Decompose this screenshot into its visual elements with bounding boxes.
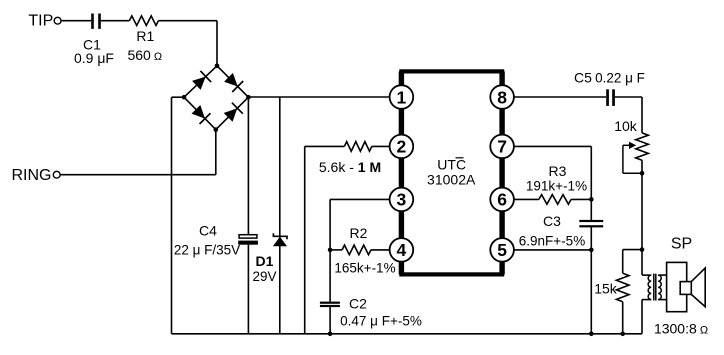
svg-text:D1: D1 xyxy=(256,253,274,269)
svg-text:10k: 10k xyxy=(614,118,638,134)
svg-text:R1: R1 xyxy=(136,28,154,44)
svg-text:7: 7 xyxy=(497,137,507,157)
svg-text:C3: C3 xyxy=(543,213,561,229)
svg-text:4: 4 xyxy=(397,240,407,260)
svg-text:RING: RING xyxy=(12,167,52,184)
svg-text:C5: C5 xyxy=(574,69,592,85)
svg-text:15k: 15k xyxy=(594,281,618,297)
svg-text:29V: 29V xyxy=(252,269,276,284)
svg-text:5.6k - 1 M: 5.6k - 1 M xyxy=(319,159,381,175)
svg-text:R3: R3 xyxy=(549,163,567,179)
svg-text:0.9 μF: 0.9 μF xyxy=(74,50,114,66)
svg-text:R2: R2 xyxy=(350,225,368,241)
svg-text:8: 8 xyxy=(497,87,507,107)
svg-text:2: 2 xyxy=(397,137,407,157)
svg-text:6.9nF+-5%: 6.9nF+-5% xyxy=(519,234,585,249)
svg-text:0.22 μ F: 0.22 μ F xyxy=(595,70,645,85)
svg-text:31002A: 31002A xyxy=(427,171,476,187)
svg-text:6: 6 xyxy=(497,190,507,210)
svg-text:UTC: UTC xyxy=(437,157,466,173)
svg-text:C4: C4 xyxy=(199,222,217,238)
svg-text:1: 1 xyxy=(397,87,407,107)
svg-text:3: 3 xyxy=(397,190,407,210)
svg-text:22 μ F/35V: 22 μ F/35V xyxy=(174,242,240,257)
svg-text:191k+-1%: 191k+-1% xyxy=(526,178,587,193)
svg-text:0.47 μ F+-5%: 0.47 μ F+-5% xyxy=(340,314,422,329)
svg-text:165k+-1%: 165k+-1% xyxy=(334,261,395,276)
svg-text:C2: C2 xyxy=(349,296,367,312)
svg-text:5: 5 xyxy=(497,240,507,260)
svg-text:SP: SP xyxy=(671,236,692,253)
svg-text:TIP: TIP xyxy=(28,13,53,30)
